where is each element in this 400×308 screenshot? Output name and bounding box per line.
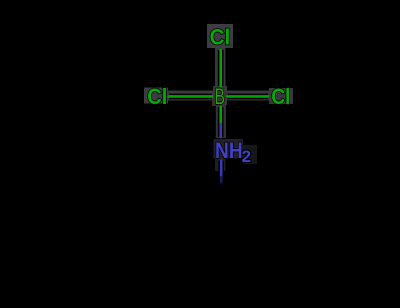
svg-text:NH: NH xyxy=(215,139,243,163)
atom label Cl1 (top) xyxy=(210,25,231,50)
atom label B xyxy=(215,86,225,110)
label box Cl3 (right) xyxy=(269,88,293,104)
halo band of bond B-Cl1 (vertical top) xyxy=(215,46,226,88)
svg-text:Cl: Cl xyxy=(271,85,290,109)
bond N-C fade tail (dark blue) xyxy=(220,177,223,182)
svg-text:Cl: Cl xyxy=(210,25,231,50)
label box Cl2 (left) xyxy=(144,88,168,104)
atom label subscript 2 of NH2 xyxy=(242,147,251,166)
halo band of bond B-N (vertical) xyxy=(216,105,226,138)
bond B-N upper half (green) xyxy=(218,107,224,124)
label box Cl1 (top) xyxy=(207,24,233,48)
label box NH2 subscript xyxy=(243,145,258,164)
atom label N H of NH2 xyxy=(215,139,243,163)
svg-text:2: 2 xyxy=(242,147,251,166)
halo band of bond B-Cl3 (horizontal right) xyxy=(227,91,269,101)
bond B-N lower half (blue) xyxy=(218,124,224,137)
halo band of bond B-Cl2 (horizontal left) xyxy=(167,91,213,101)
label box B xyxy=(213,86,227,105)
bond B-Cl3 (horizontal right, green) xyxy=(228,94,269,100)
atom label Cl2 (left) xyxy=(147,85,167,109)
atom label Cl3 (right) xyxy=(271,85,290,109)
halo band of bond N-C (below NH2) xyxy=(215,158,226,171)
bond N-C upper half (blue) xyxy=(218,161,224,178)
artifact patch at B box corner xyxy=(212,99,217,106)
bond B-Cl2 (horizontal left, green) xyxy=(169,94,212,100)
bond B-Cl1 (vertical, green) xyxy=(218,50,224,86)
svg-text:B: B xyxy=(215,86,225,110)
label box NH2 (behind N and H) xyxy=(214,139,244,159)
svg-text:Cl: Cl xyxy=(147,85,167,109)
